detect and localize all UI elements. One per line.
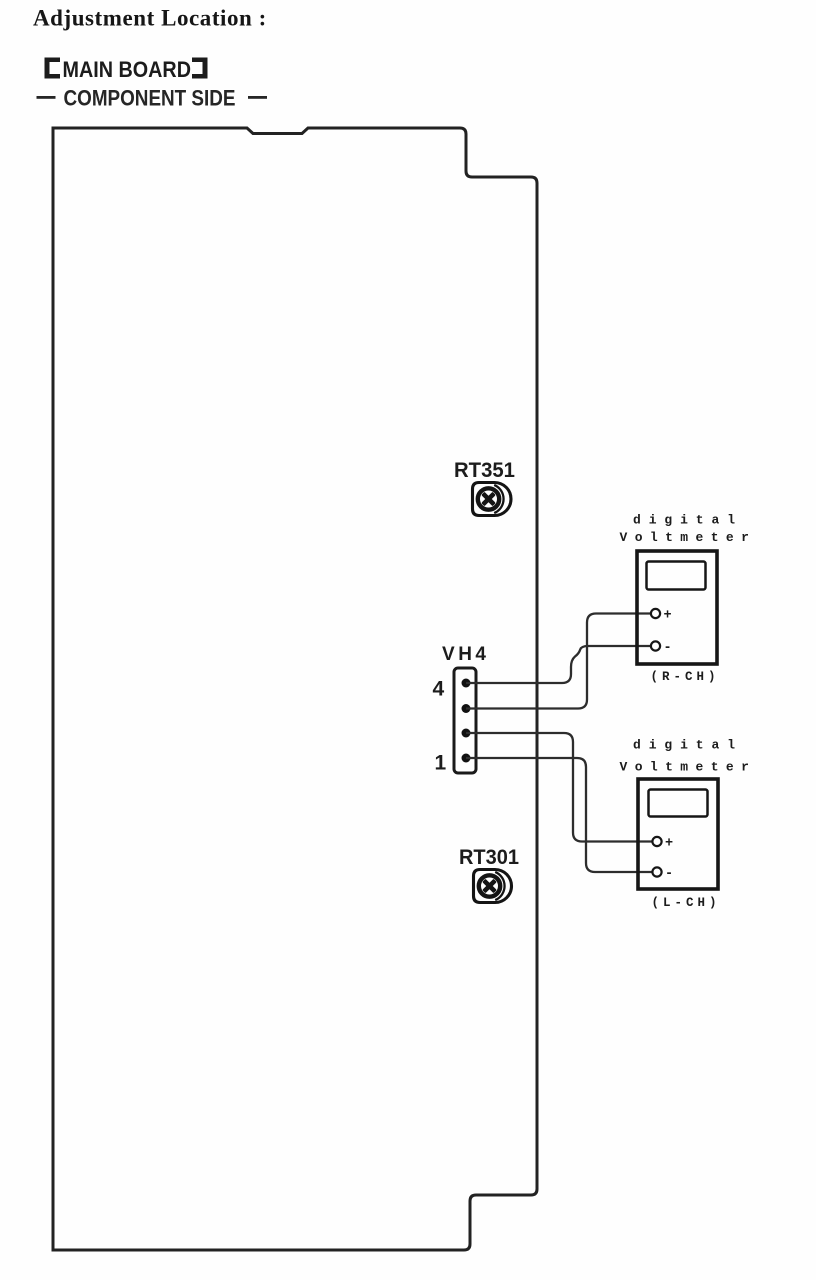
left lens bracket	[45, 58, 61, 79]
pin 4 dot	[462, 679, 471, 688]
svg-text:MAIN BOARD: MAIN BOARD	[63, 57, 192, 82]
wire pin4 to R-CH minus terminal	[466, 646, 651, 683]
svg-text:+: +	[665, 837, 673, 852]
L-CH minus terminal	[652, 867, 661, 876]
digital voltmeter R-CH box	[637, 551, 717, 664]
R-CH plus terminal	[651, 609, 660, 618]
svg-text:(L-CH): (L-CH)	[652, 896, 721, 910]
svg-text:Voltmeter: Voltmeter	[620, 530, 757, 545]
svg-text:VH4: VH4	[442, 644, 486, 665]
svg-text:4: 4	[433, 678, 445, 701]
pin 2 dot	[462, 729, 471, 738]
svg-text:RT351: RT351	[454, 458, 515, 482]
right lens bracket	[192, 58, 208, 79]
pin 1 dot	[462, 754, 471, 763]
svg-text:1: 1	[435, 752, 447, 775]
wire pin1 to L-CH minus terminal	[466, 758, 652, 872]
R-CH display window	[647, 562, 706, 590]
digital voltmeter L-CH box	[638, 779, 718, 889]
pin 3 dot	[462, 704, 471, 713]
label MAIN BOARD with lens brackets	[45, 57, 208, 82]
wire pin2 to L-CH plus terminal	[466, 733, 652, 842]
svg-text:COMPONENT SIDE: COMPONENT SIDE	[64, 86, 236, 111]
board outline (main board, component side)	[53, 128, 537, 1250]
L-CH plus terminal	[652, 837, 661, 846]
svg-text:-: -	[664, 641, 672, 656]
svg-text:+: +	[664, 609, 672, 624]
svg-text:Adjustment Location :: Adjustment Location :	[33, 6, 267, 31]
svg-text:Voltmeter: Voltmeter	[620, 760, 757, 775]
trimmer RT301	[474, 870, 512, 903]
L-CH display window	[649, 790, 708, 817]
svg-text:RT301: RT301	[459, 845, 519, 869]
R-CH minus terminal	[651, 641, 660, 650]
wire pin3 to R-CH plus terminal	[466, 614, 650, 709]
svg-text:(R-CH): (R-CH)	[651, 670, 720, 684]
label COMPONENT SIDE	[37, 86, 268, 111]
svg-text:digital: digital	[633, 738, 743, 753]
trimmer RT351	[473, 483, 512, 516]
svg-text:-: -	[665, 867, 673, 882]
svg-text:digital: digital	[633, 513, 743, 528]
connector VH4 body	[454, 668, 476, 773]
